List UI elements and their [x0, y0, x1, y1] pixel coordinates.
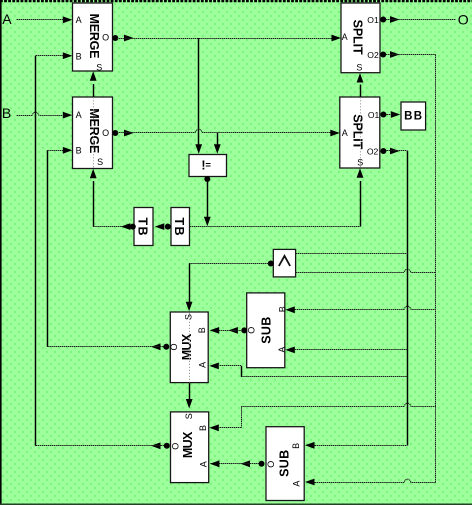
svg-text:A: A: [292, 481, 302, 487]
svg-text:O: O: [171, 443, 181, 450]
module MUX U11: [171, 412, 209, 483]
svg-text:B: B: [2, 105, 11, 121]
svg-text:B: B: [76, 51, 82, 61]
svg-text:MERGE: MERGE: [87, 14, 101, 59]
svg-text:O: O: [458, 12, 469, 28]
svg-text:BB: BB: [404, 110, 422, 122]
wire branch to U11.B: [209, 403, 436, 431]
wire branch to U12.B: [285, 306, 436, 313]
wire U7.O to U2.S and U1.S select chain: [90, 71, 136, 230]
svg-text:A: A: [2, 11, 12, 27]
svg-text:B: B: [76, 146, 82, 156]
wire branch to U9 upper input: [296, 253, 408, 255]
module TB U7: [134, 208, 153, 246]
wire U3.O2 right vertical bus: [380, 51, 436, 482]
wire end to U13.B: [305, 442, 408, 449]
svg-text:A: A: [199, 461, 209, 467]
svg-text:O: O: [102, 32, 109, 42]
wire U11.O to U1.B feedback: [36, 52, 170, 449]
svg-text:TB: TB: [136, 218, 150, 236]
wire U12.O to U10.B: [210, 327, 248, 334]
svg-text:O: O: [247, 327, 257, 334]
module SPLIT U4: [340, 97, 380, 168]
canvas top dashed border: [0, 0, 472, 2]
svg-text:O2: O2: [367, 50, 379, 60]
comparator != U6: [189, 155, 227, 177]
module TB U8: [171, 208, 190, 246]
wire branch to U12.A: [285, 347, 407, 354]
wire TB row to U4.S and U3.S select chain: [190, 73, 364, 227]
svg-text:SUB: SUB: [260, 317, 274, 344]
wire U4.O1 to BB: [380, 111, 400, 118]
svg-text:S: S: [357, 157, 363, 167]
svg-text:S: S: [97, 157, 103, 167]
module BB U5: [401, 102, 426, 130]
svg-text:B: B: [277, 306, 287, 312]
svg-text:O1: O1: [367, 15, 379, 25]
svg-text:O: O: [169, 343, 179, 350]
svg-text:SPLIT: SPLIT: [351, 20, 365, 55]
svg-text:A: A: [342, 128, 348, 138]
wire branch U2.O down to U6 right input: [214, 133, 221, 154]
wire U2.O to U4.A: [112, 129, 339, 136]
svg-text:SPLIT: SPLIT: [350, 114, 364, 149]
svg-text:MUX: MUX: [181, 431, 195, 458]
svg-text:S: S: [183, 314, 193, 320]
svg-text:S: S: [356, 62, 362, 72]
svg-text:B: B: [198, 425, 208, 431]
wire branch U1.O down to U6 left input: [195, 38, 202, 154]
svg-text:A: A: [342, 32, 348, 42]
wire U10.O to U2.B feedback: [47, 147, 169, 350]
svg-text:O1: O1: [368, 110, 380, 120]
xor ^ U9: [273, 249, 295, 277]
wire U13.O to U11.A: [210, 460, 265, 467]
wire net B to U2.A: [17, 112, 73, 119]
svg-text:A: A: [197, 362, 207, 368]
svg-text:B: B: [291, 443, 301, 449]
wire branch to U13.A: [305, 479, 436, 486]
module MUX U10: [169, 312, 208, 383]
module MERGE U1: [73, 3, 113, 72]
svg-text:B: B: [197, 327, 207, 333]
wire branch to U9 lower input: [296, 269, 436, 272]
svg-text:TB: TB: [172, 218, 186, 236]
svg-text:SUB: SUB: [278, 450, 292, 477]
svg-text:MUX: MUX: [180, 333, 194, 360]
module SUB U13: [266, 427, 304, 501]
svg-text:O2: O2: [367, 147, 379, 157]
svg-text:A: A: [277, 347, 287, 353]
wire U4.O2 right vertical bus: [380, 148, 407, 446]
module SUB U12: [247, 293, 288, 368]
wire net A to U1.A: [17, 16, 73, 23]
svg-text:A: A: [76, 110, 82, 120]
svg-text:O: O: [266, 461, 276, 468]
svg-text:A: A: [76, 15, 82, 25]
wire U6 output to TB row: [204, 176, 211, 226]
wire U3.O1 to net O: [380, 16, 456, 23]
wire U1.O to U3.A: [112, 35, 341, 42]
svg-text:S: S: [96, 62, 102, 72]
canvas bottom border: [0, 504, 472, 505]
svg-text:S: S: [184, 413, 194, 419]
module MERGE U2: [73, 97, 113, 169]
wire U8.O to U7 input: [155, 223, 171, 230]
wire U9 output to U10.S and U11.S select chain: [186, 261, 274, 409]
svg-text:O: O: [102, 128, 109, 138]
module SPLIT U3: [341, 3, 380, 73]
svg-text:=: =: [205, 160, 211, 171]
canvas left border: [0, 0, 2, 505]
wire branch to U10.A: [209, 363, 407, 378]
